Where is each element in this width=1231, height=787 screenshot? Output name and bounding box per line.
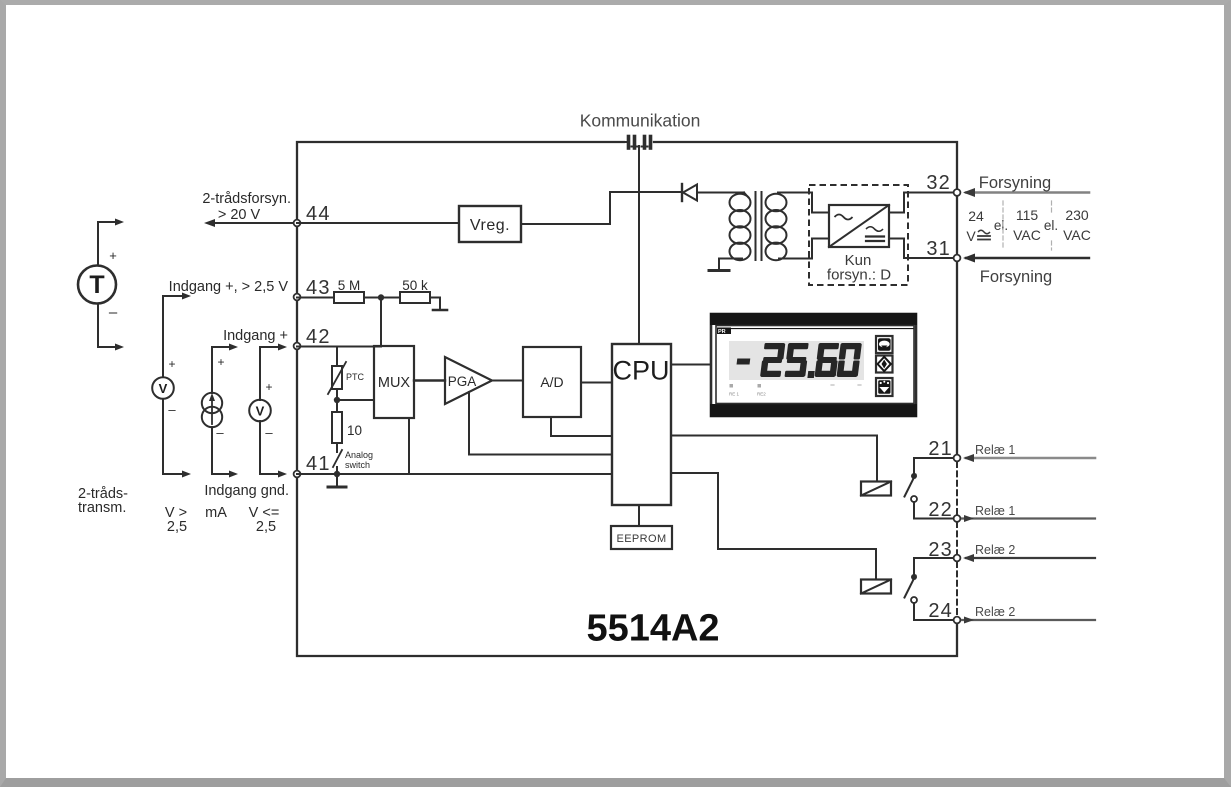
ground transformer primary [709,269,729,272]
supply line to 31 [963,254,1089,263]
wire switch to 41 line [336,467,338,474]
wire V1 top [163,293,191,378]
svg-text:2,5: 2,5 [256,519,276,535]
svg-text:24: 24 [928,600,953,622]
supply line to 32 [963,188,1089,197]
current source minus [216,425,224,440]
svg-text:T: T [89,271,104,299]
svg-text:5514A2: 5514A2 [586,608,719,650]
label Relae 1 bottom [975,504,1015,518]
display button select [876,356,893,373]
label 2-tradsforsyn [202,191,291,223]
wire Vreg to diode [521,192,680,224]
wire mA bottom [212,427,238,478]
svg-text:el.: el. [994,218,1008,233]
source V2 plus [265,380,272,394]
multiplexer MUX [374,346,414,418]
wire MUX bottom to 41 line [408,418,410,474]
wire transmitter top [98,219,124,266]
svg-text:115: 115 [1016,207,1039,223]
svg-text:Analog: Analog [345,450,373,460]
relay line 24 [962,617,1095,624]
display button up [876,336,893,353]
svg-text:Relæ 2: Relæ 2 [975,543,1015,557]
svg-text:forsyn.: D: forsyn.: D [827,267,891,284]
svg-text:21: 21 [928,438,953,460]
display button down [876,378,893,396]
relay line 22 [962,515,1095,522]
wire transmitter bottom [98,304,124,351]
current source circles [202,393,222,427]
wire converter to terminal 32 [889,193,957,213]
wire secondary to converter bottom [812,239,829,259]
ground analog input [328,474,346,487]
communication connector J1 [624,137,651,149]
relay contact 2 [905,558,958,620]
svg-text:> 20 V: > 20 V [218,207,261,223]
source V1 circle [152,377,174,399]
node junction 43-MUX [378,294,384,300]
node terminal 43 [294,277,331,300]
svg-text:switch: switch [345,460,370,470]
relay contact 1 [905,458,958,519]
wire PTC to junction [336,389,338,400]
wire mA top [212,344,238,394]
svg-text:42: 42 [306,326,331,348]
svg-text:–: – [168,402,176,417]
display indicator labels [729,384,861,397]
node terminal 22 [928,499,960,522]
svg-text:Indgang +: Indgang + [223,328,288,344]
wire V2 bottom [260,421,287,478]
label Forsyning bottom [980,268,1052,286]
wire comm bus [638,146,640,344]
label mA [205,505,227,521]
wire secondary to converter top [812,193,829,213]
converter A/D [523,347,581,417]
svg-text:Indgang +, > 2,5 V: Indgang +, > 2,5 V [169,279,289,295]
wire 44 to Vreg [297,222,459,224]
svg-text:+: + [109,248,117,263]
svg-text:Forsyning: Forsyning [979,174,1051,192]
transformer T1 primary winding [730,193,751,261]
svg-text:VAC: VAC [1063,227,1091,243]
wire converter to terminal 31 [889,239,957,259]
node terminal 24 [928,600,960,623]
source V2 minus [265,425,273,440]
regulator Vreg [459,206,521,242]
wire 5M to 50k [364,297,400,299]
current source plus [217,355,224,369]
svg-text:–: – [265,425,273,440]
svg-text:+: + [217,355,224,369]
svg-text:Vreg.: Vreg. [470,217,510,234]
transmitter T circle [78,266,116,304]
svg-text:CPU: CPU [612,356,669,386]
chassis ground 50k [433,309,447,312]
svg-text:Relæ 1: Relæ 1 [975,504,1015,518]
svg-text:EEPROM: EEPROM [616,533,666,545]
svg-text:RE 1: RE 1 [729,392,740,397]
wire V1 bottom [163,399,191,478]
svg-text:50 k: 50 k [402,278,428,293]
wire AD to CPU [581,382,612,384]
wire junction down to MUX [380,298,382,347]
label Kommunikation [580,111,701,131]
node terminal 23 [928,539,960,561]
svg-text:V: V [256,404,265,419]
wire MUX to PGA [414,379,445,381]
svg-text:+: + [265,380,272,394]
svg-text:PGA: PGA [448,374,477,389]
transformer T1 secondary winding [766,193,813,261]
display unit frame [710,313,917,417]
relay line 21 [963,454,1095,462]
label Forsyning top [979,174,1051,192]
source V2 circle [249,400,271,422]
node terminal 31 [926,238,960,261]
label V less 2.5 [249,505,280,535]
source V1 minus [168,402,176,417]
node terminal 32 [926,172,960,196]
transmitter plus [109,248,117,263]
AC-DC converter [829,205,889,247]
svg-text:Indgang gnd.: Indgang gnd. [204,483,289,499]
svg-text:A/D: A/D [540,374,563,390]
svg-text:VAC: VAC [1013,227,1041,243]
svg-text:mA: mA [205,505,227,521]
svg-text:MUX: MUX [378,375,411,391]
svg-text:24: 24 [968,208,984,224]
svg-text:V: V [966,228,976,244]
svg-text:2-trådsforsyn.: 2-trådsforsyn. [202,191,291,207]
wire primary to ground [719,259,742,270]
label Relae 2 top [975,543,1015,557]
relay coil K2 [861,580,891,594]
wire AD bottom to CPU [551,417,612,436]
arrow 2-wire supply out [204,219,215,227]
label 2-trads-transm [78,486,128,516]
label Indgang plus 2.5V [169,279,289,295]
label 5514A2 [586,608,719,650]
device enclosure 5514A2 outline [297,142,957,656]
relay line 23 [963,554,1095,562]
svg-text:PTC: PTC [346,372,365,382]
label V greater 2.5 [165,505,187,535]
node terminal 42 [294,326,331,349]
svg-text:transm.: transm. [78,500,126,516]
wire diode to transformer [697,192,744,194]
wire PGA bottom to CPU [469,392,612,455]
svg-text:22: 22 [928,499,953,521]
memory EEPROM [611,505,672,549]
svg-text:–: – [216,425,224,440]
resistor 10 [332,400,362,443]
transmitter minus [109,304,118,321]
svg-text:–: – [109,304,118,321]
wire junction to MUX input [337,399,374,401]
svg-text:Relæ 2: Relæ 2 [975,605,1015,619]
node junction 41-ground [334,471,340,477]
svg-text:+: + [168,357,175,371]
svg-text:PR: PR [718,329,726,335]
dashed box Kun forsyn.: D [809,185,908,285]
wire V2 top [260,344,287,401]
wire CPU to relay coil 1 [671,436,877,482]
svg-text:23: 23 [928,539,953,561]
svg-text:V: V [159,381,168,396]
resistor PTC [328,347,365,395]
label Indgang gnd [204,483,289,499]
svg-text:Kommunikation: Kommunikation [580,111,701,131]
processor CPU [612,344,671,505]
node terminal 21 [928,438,960,461]
wire CPU to display [671,364,711,366]
relay coil K1 [861,482,891,496]
current source arrow [209,393,215,424]
label supply voltages 24V 115VAC 230VAC [966,201,1091,250]
wire 43 to 5M [297,297,334,299]
svg-text:Relæ 1: Relæ 1 [975,443,1015,457]
diode D1 [682,184,697,201]
svg-text:43: 43 [306,277,331,299]
wire 41 to CPU [297,473,612,475]
svg-text:el.: el. [1044,218,1058,233]
node terminal 44 [294,203,331,226]
transformer T1 core [756,192,762,260]
source V1 plus [168,357,175,371]
label Relae 2 bottom [975,605,1015,619]
svg-text:10: 10 [347,423,362,438]
resistor 5M [334,278,364,303]
node terminal 41 [294,453,331,477]
node junction PTC-MUX [334,397,340,403]
svg-text:RE2: RE2 [757,392,766,397]
svg-text:230: 230 [1065,207,1089,223]
svg-text:41: 41 [306,453,331,475]
wire PGA to AD [492,380,523,382]
amplifier PGA [445,357,492,404]
resistor 50k [400,278,430,303]
analog switch [333,443,373,470]
svg-text:31: 31 [926,238,951,260]
wire CPU to relay coil 2 [671,473,876,579]
wire 50k to chassis [430,298,440,310]
wire terminal 44 lead [208,222,297,224]
wire 42 to MUX [297,346,381,348]
svg-text:Forsyning: Forsyning [980,268,1052,286]
svg-text:5 M: 5 M [338,278,361,293]
svg-text:44: 44 [306,203,331,225]
label Relae 1 top [975,443,1015,457]
label Indgang plus [223,328,288,344]
display seven-segment readout -25.60 [735,343,862,378]
svg-text:32: 32 [926,172,951,194]
svg-text:2,5: 2,5 [167,519,187,535]
